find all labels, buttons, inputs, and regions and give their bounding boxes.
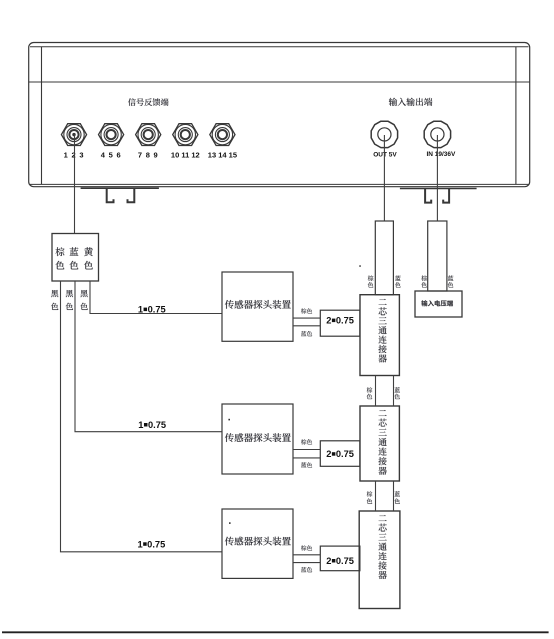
svg-text:IN 19/36V: IN 19/36V [426,151,456,158]
value label 1*0.75 row 2 [138,420,166,430]
label 棕色 T1-T2 [367,387,373,399]
wire black A (to sensor 3) [61,281,223,552]
cable sleeve below OUT 5V [375,221,393,295]
round connector IN 19/36V [424,121,456,158]
label 蓝色 row 3 [301,567,312,572]
label 蓝色 row 2 [301,462,312,467]
svg-text:1: 1 [138,305,143,315]
svg-text:2: 2 [326,556,331,566]
DIN-rail mount right [400,189,477,203]
value label 1*0.75 row 1 [138,305,166,315]
label 棕色 left of OUT sleeve [368,275,374,287]
sensor probe unit 传感器探头装置 #2 [222,404,293,474]
svg-text:1: 1 [138,420,143,430]
colour-code box 棕色 蓝色 黄色 [52,234,99,282]
hex connector J3 (7 8 9) [136,124,161,160]
round connector OUT 5V [371,121,397,158]
cable sleeve below IN 19/36V [428,221,447,291]
svg-text:0.75: 0.75 [148,420,166,430]
label 输入输出端 (input/output side) [389,98,433,106]
hex connector J5 (13 14 15) [208,124,237,160]
svg-text:2: 2 [326,316,331,326]
input voltage box 输入电压端 [415,291,462,317]
svg-text:1: 1 [138,539,143,549]
label 黑色 on wire A [51,290,58,310]
label 黑色 on wire C [80,290,87,310]
wire from IN 19/36V to cable sleeve [436,135,438,221]
wire pair T2 to T3 [376,481,394,511]
wire pair (brown/blue) sensor 1 to cable [293,318,320,326]
wire black C (to sensor 1) [90,281,222,314]
wire pair T1 to T2 [376,376,394,407]
sensor probe unit 传感器探头装置 #1 [222,272,293,341]
wire from J1 to colour-code box [74,135,76,234]
wire from OUT 5V to cable sleeve [383,135,385,221]
label 蓝色 T2-T3 [394,491,400,504]
svg-text:0.75: 0.75 [148,305,166,315]
label 蓝色 T1-T2 [394,387,400,399]
svg-text:7 8 9: 7 8 9 [138,150,159,159]
svg-text:2: 2 [326,449,331,459]
label 棕色 left of IN sleeve [421,275,427,287]
svg-text:0.75: 0.75 [336,449,354,459]
svg-text:OUT 5V: OUT 5V [373,151,397,158]
connector box T1 二芯三通连接器 [360,295,399,376]
label 棕色 row 2 [301,439,312,444]
sensor probe unit 传感器探头装置 #3 [222,509,293,578]
label 蓝色 right of OUT sleeve [395,275,401,287]
label 棕色 T2-T3 [367,491,373,504]
wire pair (brown/blue) sensor 3 to cable [293,555,320,563]
stray mark near T1 [359,265,361,267]
hex connector J2 (4 5 6) [99,124,124,160]
svg-text:0.75: 0.75 [147,539,165,549]
svg-text:13 14 15: 13 14 15 [208,150,237,159]
label 信号反馈端 (signal feedback side) [128,98,169,106]
page footer rule [2,631,549,633]
cable box 2*0.75 row 2 [320,441,360,467]
cable box 2*0.75 row 3 [320,546,360,571]
svg-text:4 5 6: 4 5 6 [101,150,122,159]
wire pair (brown/blue) sensor 2 to cable [293,450,320,458]
wire black B (to sensor 2) [75,281,222,432]
label 蓝色 right of IN sleeve [448,275,454,287]
DIN-rail mount left [81,188,159,202]
label 棕色 row 3 [301,545,312,550]
hex connector J4 (10 11 12) [171,124,200,160]
svg-text:10 11 12: 10 11 12 [171,150,200,159]
label 黑色 on wire B [66,290,73,310]
label 蓝色 row 1 [301,331,312,336]
value label 1*0.75 row 3 [138,539,166,549]
connector box T3 二芯三通连接器 [359,511,400,609]
hex connector J1 (1 2 3) [61,124,86,160]
connector box T2 二芯三通连接器 [360,406,399,481]
cable box 2*0.75 row 1 [320,310,360,336]
label 棕色 row 1 [301,308,312,313]
svg-text:0.75: 0.75 [336,556,354,566]
device chassis outline [29,43,530,187]
svg-text:0.75: 0.75 [336,316,354,326]
